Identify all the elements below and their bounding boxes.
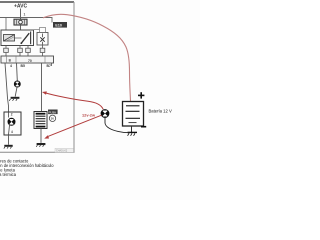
- ground G2: [4, 145, 13, 149]
- terminal strip X1: [1, 56, 54, 63]
- wire +AVC feed: [20, 9, 22, 20]
- panel lamp unit H2 box: [4, 112, 21, 135]
- red annotation line B: [44, 115, 101, 138]
- fuse F1: [14, 19, 27, 25]
- wire to ground: [8, 135, 10, 145]
- battery + terminal: [138, 92, 144, 98]
- ground G4: [128, 132, 138, 135]
- label FU30: [48, 110, 58, 115]
- relay fixed contact: [30, 32, 32, 45]
- frame right edge: [73, 2, 75, 153]
- test lamp H3: [101, 110, 109, 118]
- wire test lamp to battery ground: [105, 118, 130, 133]
- svg-text:B7: B7: [47, 64, 51, 68]
- wire fuse to relay: [20, 25, 22, 30]
- svg-text:2: 2: [11, 113, 13, 117]
- svg-text:30: 30: [51, 117, 55, 121]
- svg-text:12v-2w: 12v-2w: [82, 112, 96, 117]
- svg-text:4: 4: [10, 64, 12, 68]
- svg-text:CHA01-02: CHA01-02: [56, 150, 68, 153]
- wire strip to indicator lamp: [16, 63, 19, 81]
- wire bus: [0, 18, 52, 23]
- wire battery to ground: [131, 126, 133, 132]
- relay contact blade: [20, 33, 29, 44]
- red annotation line A: [42, 91, 103, 109]
- svg-text:B5: B5: [21, 64, 25, 68]
- svg-text:FU30: FU30: [49, 110, 57, 114]
- switch S1 top pin: [34, 28, 46, 33]
- relay K1: [1, 30, 34, 46]
- label 30 circle: [49, 115, 55, 121]
- pin 2: [9, 112, 13, 118]
- battery BT1: [123, 102, 144, 127]
- frame top edge: [0, 1, 74, 3]
- terminal B7 stub: [51, 63, 53, 66]
- wire lamp to ground: [15, 87, 17, 97]
- svg-text:ta térmica: ta térmica: [0, 172, 17, 177]
- wire coil to contact: [15, 37, 22, 39]
- relay coil: [4, 35, 15, 42]
- battery - terminal: [141, 126, 146, 128]
- wire element to ground: [40, 129, 42, 143]
- title stamp box: [55, 148, 74, 152]
- wire strip to panel lamp: [5, 63, 9, 112]
- frame bottom edge: [0, 151, 75, 153]
- panel lamp bulb: [8, 118, 15, 125]
- pin 4: [9, 125, 14, 135]
- ground G3: [36, 143, 45, 147]
- connector E10 label: [53, 22, 67, 28]
- svg-text:70: 70: [28, 59, 32, 63]
- connector pin squares: [4, 48, 45, 52]
- ground G1: [9, 97, 19, 101]
- indicator lamp H1: [14, 81, 20, 87]
- svg-text:4: 4: [11, 130, 13, 134]
- relay bottom pin stubs: [6, 45, 43, 48]
- heated window element R1: [34, 112, 47, 129]
- svg-text:E10: E10: [55, 24, 62, 28]
- switch S1 box: [37, 33, 48, 46]
- wire strip to heated window: [41, 63, 43, 112]
- svg-text:Batería 12 V: Batería 12 V: [149, 109, 172, 114]
- wire bus to relay pin: [5, 18, 7, 30]
- wires pins to strip: [6, 53, 43, 56]
- red jumper wire: [43, 14, 131, 101]
- svg-text:1: 1: [24, 13, 26, 17]
